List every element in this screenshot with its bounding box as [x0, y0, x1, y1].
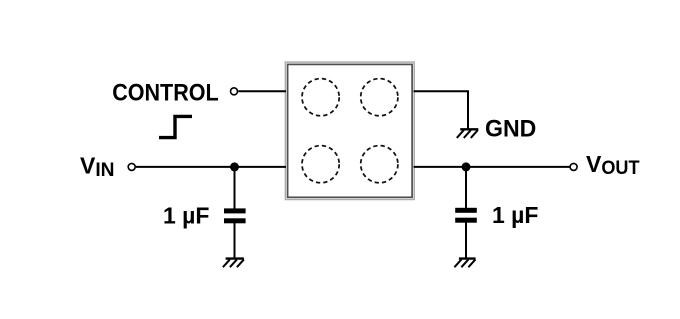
- ground (input cap): [223, 259, 244, 268]
- IC U1 bump A2: [361, 79, 398, 116]
- wire U1 to GND: [414, 91, 469, 129]
- IC U1 bump B1: [302, 146, 339, 183]
- capacitor C2: [455, 208, 477, 223]
- ground (output cap): [454, 259, 475, 268]
- svg-text:VOUT: VOUT: [586, 151, 640, 179]
- svg-text:CONTROL: CONTROL: [112, 80, 219, 107]
- terminal VOUT: [570, 163, 577, 170]
- capacitor C1: [224, 208, 246, 223]
- terminal CONTROL: [231, 88, 238, 95]
- svg-text:GND: GND: [485, 115, 536, 142]
- svg-text:VIN: VIN: [80, 153, 115, 181]
- IC U1 package outline (outer): [285, 62, 414, 199]
- wire VOUT node to C2: [465, 167, 467, 209]
- wire VIN to U1: [136, 166, 286, 168]
- control step waveform symbol: [159, 116, 192, 137]
- IC U1 bump A1: [302, 79, 339, 116]
- IC U1 package outline (inner): [288, 64, 413, 197]
- wire CONTROL to U1: [238, 90, 286, 92]
- wire U1 to VOUT: [414, 166, 571, 168]
- svg-text:1 µF: 1 µF: [492, 202, 538, 228]
- IC U1 bump B2: [361, 146, 398, 183]
- wire C2 to ground: [465, 222, 467, 258]
- ground GND: [457, 129, 479, 138]
- junction VIN node: [230, 162, 239, 171]
- junction VOUT node: [462, 162, 471, 171]
- terminal VIN: [128, 163, 135, 170]
- wire C1 to ground: [234, 223, 236, 259]
- svg-text:1 µF: 1 µF: [163, 203, 209, 229]
- wire VIN node to C1: [234, 167, 236, 209]
